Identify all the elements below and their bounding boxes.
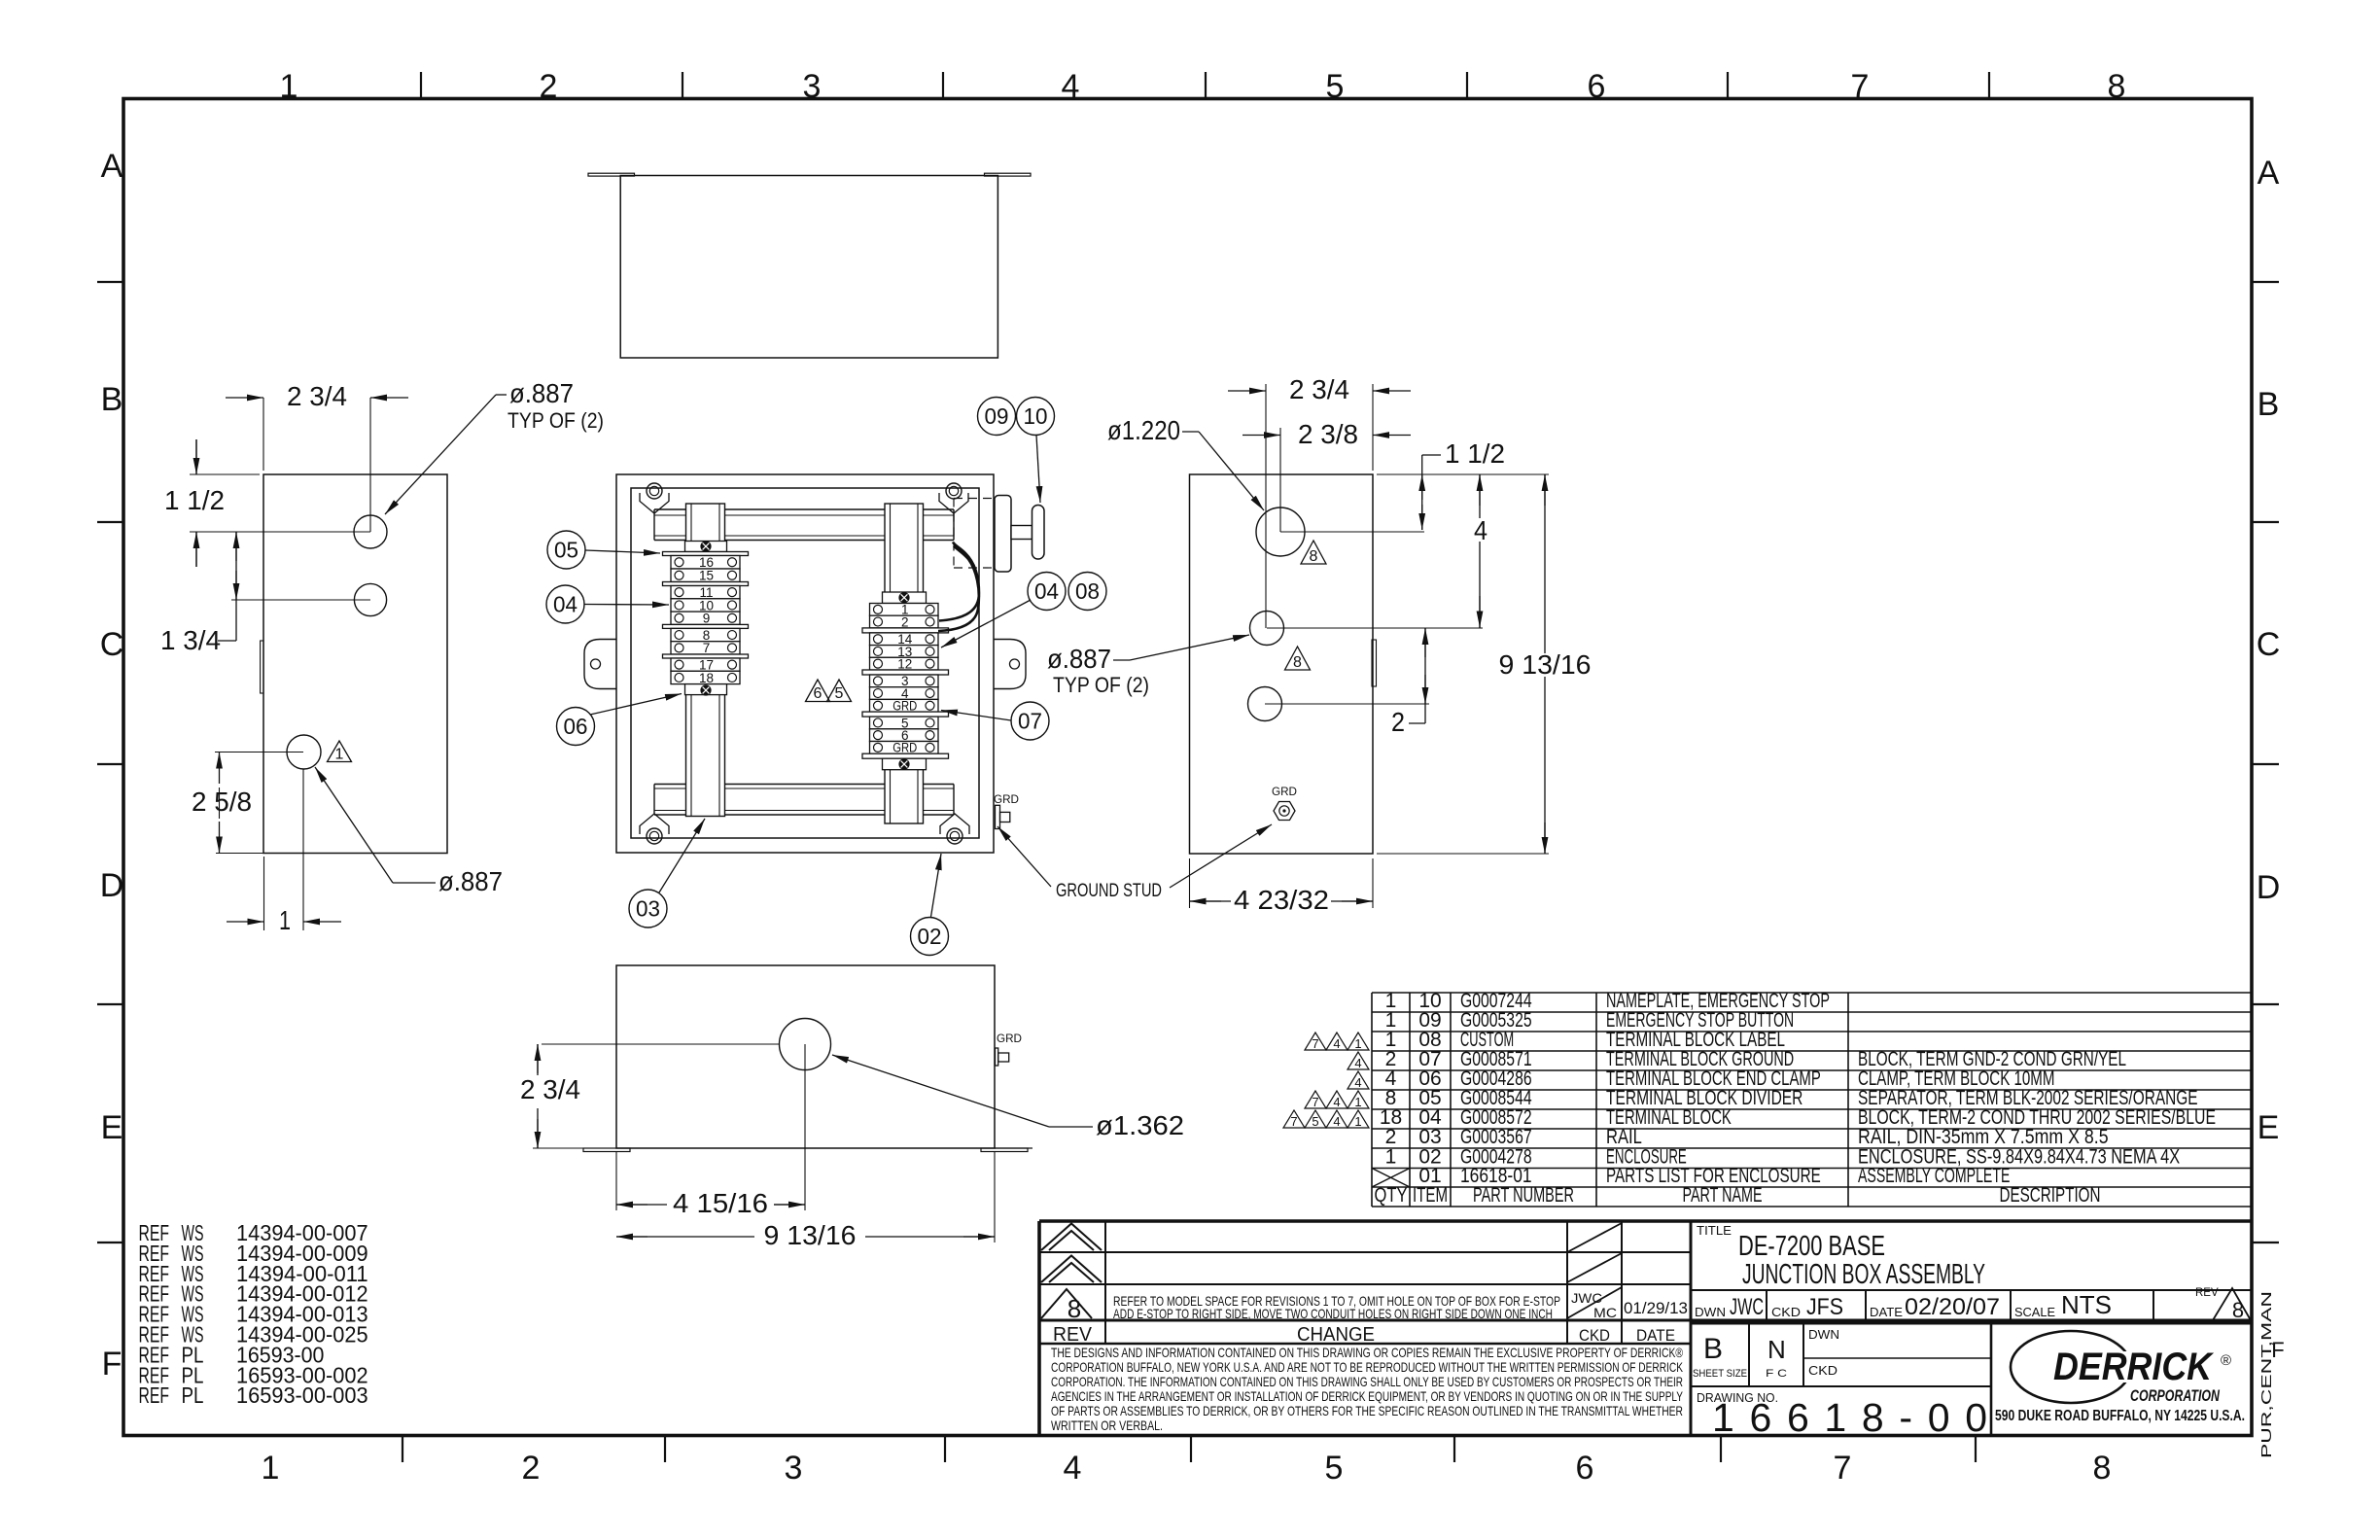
svg-text:05: 05 (554, 538, 578, 563)
balloon 09 (978, 398, 1016, 436)
rev flag triangle 8 lower (1285, 647, 1311, 670)
parts table header row (1375, 1184, 2101, 1207)
svg-text:02: 02 (918, 924, 942, 949)
rev flag triangle 8 upper (1301, 541, 1326, 564)
extension line big hole centerline (1280, 531, 1424, 533)
svg-text:5: 5 (1325, 1450, 1344, 1487)
svg-text:ASSEMBLY COMPLETE: ASSEMBLY COMPLETE (1858, 1165, 2010, 1187)
corner screw top-right (946, 483, 962, 499)
parts row item 08: CUSTOM (1385, 1029, 1785, 1051)
balloon 05 leader (585, 550, 660, 553)
svg-text:WRITTEN OR VERBAL.: WRITTEN OR VERBAL. (1051, 1417, 1163, 1433)
parts row item 04: G0008572 (1380, 1106, 2216, 1129)
zone ruler bottom ticks (402, 1436, 403, 1463)
balloon 03 (629, 890, 667, 927)
ground stud leader right (1170, 824, 1272, 888)
svg-text:SHEET SIZE: SHEET SIZE (1693, 1368, 1747, 1380)
svg-text:ADD E-STOP TO RIGHT SIDE, MOVE: ADD E-STOP TO RIGHT SIDE, MOVE TWO CONDU… (1113, 1306, 1553, 1321)
Derrick logo text (2047, 1346, 2231, 1388)
svg-text:2 3/4: 2 3/4 (520, 1074, 580, 1104)
right side view panel outline (1190, 474, 1374, 854)
svg-text:C: C (100, 626, 124, 663)
svg-text:D: D (100, 867, 124, 904)
e-stop contact block (side, item 09) (995, 496, 1011, 573)
svg-text:7: 7 (1851, 68, 1870, 105)
dimension 2 3/4 (right view) (1265, 384, 1267, 628)
right stack terminal rows 1,2 (870, 604, 939, 616)
zone ruler right ticks (2252, 281, 2279, 283)
rev flag triangles for item 08 (1305, 1032, 1369, 1051)
svg-text:9 13/16: 9 13/16 (1499, 649, 1592, 680)
field N F C (1766, 1335, 1787, 1380)
dimension 1 3/4 (left view) (231, 599, 370, 601)
svg-text:DATE: DATE (1870, 1305, 1903, 1319)
svg-text:PART NUMBER: PART NUMBER (1473, 1184, 1574, 1207)
svg-text:DWN: DWN (1695, 1305, 1726, 1319)
svg-text:590 DUKE ROAD BUFFALO, NY 1422: 590 DUKE ROAD BUFFALO, NY 14225 U.S.A. (1995, 1408, 2245, 1424)
parts list table grid (1372, 993, 2252, 1207)
balloon 06 (557, 708, 595, 746)
e-stop stem (1011, 526, 1032, 540)
left view hole middle (conduit) (354, 583, 386, 615)
rev row3 JWC MC (1571, 1290, 1617, 1320)
svg-text:09: 09 (985, 403, 1009, 429)
balloon 10 leader (1036, 436, 1040, 504)
top DIN rail horizontal (654, 508, 954, 510)
corner screw pad top-left (640, 493, 669, 513)
svg-text:7: 7 (1290, 1114, 1297, 1129)
dimension 2 5/8 (left view) (215, 752, 303, 753)
dimension 4 23/32 (below right view) (1189, 858, 1191, 908)
svg-text:3: 3 (803, 68, 822, 105)
legal paragraph (1051, 1345, 1684, 1433)
svg-text:7: 7 (703, 641, 711, 655)
svg-text:1: 1 (1354, 1114, 1361, 1129)
svg-text:1: 1 (1354, 1095, 1361, 1109)
dimension 1 1/2 (left view) (190, 473, 260, 475)
dimension 1 1/2 (right view) (1421, 455, 1423, 530)
svg-text:JFS: JFS (1806, 1294, 1843, 1320)
svg-text:2: 2 (1391, 707, 1405, 737)
svg-text:4: 4 (1333, 1036, 1340, 1051)
left stack divider plate (663, 582, 749, 586)
sheet border frame (123, 99, 2252, 1436)
svg-text:6: 6 (814, 685, 822, 702)
parts row item 03: G0003567 (1385, 1126, 2109, 1148)
ground stud on box wall (center view) (996, 805, 1000, 828)
svg-text:ø.887: ø.887 (509, 378, 574, 408)
svg-text:MC: MC (1593, 1305, 1617, 1320)
right view hole large (e-stop, dia 1.220) (1256, 507, 1305, 556)
corner screw bottom-left (647, 828, 662, 844)
right ear hole (1010, 659, 1020, 669)
svg-text:01/29/13: 01/29/13 (1624, 1299, 1688, 1317)
left ear hole (591, 659, 601, 669)
svg-text:PUR,CENT,MAN: PUR,CENT,MAN (2258, 1291, 2275, 1458)
svg-text:GRD: GRD (994, 792, 1019, 806)
bottom view left flange foot (583, 1148, 630, 1152)
svg-text:REV: REV (2195, 1287, 2219, 1299)
parts row item 09: G0005325 (1385, 1009, 1795, 1032)
rev marker chevron row2 (1041, 1256, 1102, 1283)
right stack terminal rows 3,4,GRD (870, 675, 939, 687)
field DATE 02/20/07 (1870, 1294, 2000, 1320)
balloon 04 left (546, 585, 584, 623)
right stack top end clamp (883, 592, 927, 604)
balloon 04 right (1028, 573, 1066, 611)
svg-text:GRD: GRD (997, 1032, 1022, 1045)
svg-text:03: 03 (636, 896, 660, 922)
left stack divider plate (item 05) (663, 552, 749, 556)
right stack divider plate (862, 670, 949, 675)
corner screw pad bottom-right (940, 814, 969, 834)
right mounting ear (994, 640, 1026, 689)
svg-text:CKD: CKD (1771, 1305, 1801, 1319)
sheet size row line (1691, 1322, 2252, 1325)
svg-text:1: 1 (262, 1450, 280, 1487)
balloon 02 (911, 918, 949, 956)
field sheet size B (1693, 1333, 1747, 1380)
svg-text:REF: REF (139, 1382, 170, 1408)
corner screw bottom-right (947, 828, 962, 844)
balloon 04/08 leader (941, 600, 1031, 647)
left view hole lower (conduit) (287, 735, 321, 769)
svg-text:6: 6 (1588, 68, 1606, 105)
diagonal slash cells (1567, 1223, 1622, 1318)
svg-text:B: B (101, 381, 123, 418)
rev flag triangles 6 and 5 (center view) (806, 680, 830, 702)
rev flag triangle 1 at lower hole (328, 741, 352, 762)
revision table lines (1039, 1221, 2252, 1436)
bottom view hole (dia 1.362) (780, 1019, 831, 1070)
svg-text:A: A (2257, 155, 2280, 192)
bottom view hole centerline vertical (804, 1044, 806, 1210)
right view hole lower (1248, 687, 1282, 721)
svg-text:9 13/16: 9 13/16 (764, 1220, 857, 1250)
svg-text:NTS: NTS (2061, 1290, 2112, 1319)
corner screw pad top-right (939, 493, 968, 513)
dashed conduit hole projection (e-stop) (953, 499, 955, 569)
corner screw pad bottom-left (640, 814, 669, 834)
svg-text:CHANGE: CHANGE (1297, 1324, 1375, 1346)
Derrick logo ellipse (2011, 1331, 2131, 1403)
svg-text:04: 04 (1034, 578, 1059, 604)
svg-text:2 3/4: 2 3/4 (1289, 374, 1349, 404)
top view left flange lip (588, 173, 635, 176)
svg-text:DWN: DWN (1808, 1327, 1839, 1342)
svg-text:4 15/16: 4 15/16 (673, 1188, 768, 1218)
svg-text:OF PARTS OR ASSEMBLIES TO DERR: OF PARTS OR ASSEMBLIES TO DERRICK, OR BY… (1051, 1403, 1683, 1418)
svg-text:04: 04 (553, 592, 577, 617)
extension line top edge right view (1377, 473, 1549, 475)
qty cross for item 01 (1372, 1169, 1410, 1188)
svg-text:GROUND STUD: GROUND STUD (1056, 881, 1162, 901)
svg-text:08: 08 (1075, 578, 1100, 604)
svg-text:2: 2 (522, 1450, 541, 1487)
e-stop button cap (item 10) (1032, 506, 1045, 560)
ground stud (right view) (1274, 802, 1295, 821)
right view hole middle (1250, 612, 1284, 646)
svg-text:10: 10 (1024, 403, 1048, 429)
top view enclosure outline (620, 176, 997, 359)
svg-text:THE DESIGNS AND INFORMATION CO: THE DESIGNS AND INFORMATION CONTAINED ON… (1051, 1345, 1684, 1360)
field DWN CKD small (1803, 1327, 1991, 1378)
rev marker chevron row1 (1041, 1224, 1102, 1251)
balloon 10 (1017, 398, 1055, 436)
right stack terminal rows 14,13,12 (870, 633, 939, 646)
svg-text:18: 18 (699, 671, 714, 685)
svg-text:REV: REV (1053, 1324, 1093, 1346)
svg-text:DERRICK: DERRICK (2053, 1346, 2215, 1388)
left stack top end clamp (item 06) (685, 542, 727, 552)
svg-text:CKD: CKD (1579, 1326, 1610, 1345)
svg-text:CKD: CKD (1808, 1363, 1837, 1378)
reference list REF WS / REF PL (139, 1220, 368, 1408)
center view enclosure outer wall (616, 474, 994, 853)
right stack bottom divider plate (862, 753, 949, 758)
svg-text:N: N (1767, 1335, 1786, 1364)
sheet size dividers (1691, 1323, 1991, 1436)
svg-text:ITEM: ITEM (1413, 1184, 1448, 1207)
svg-text:7: 7 (1312, 1095, 1318, 1109)
svg-text:1: 1 (1385, 1146, 1397, 1169)
svg-text:2 3/8: 2 3/8 (1298, 419, 1358, 449)
svg-text:GRD: GRD (1272, 785, 1297, 798)
bottom view hole centerline horizontal (542, 1043, 780, 1045)
svg-text:7: 7 (1834, 1450, 1852, 1487)
svg-text:1 1/2: 1 1/2 (1445, 438, 1505, 469)
svg-text:4: 4 (1333, 1095, 1340, 1109)
field DWN JWC (1695, 1294, 1764, 1320)
top view right flange lip (985, 173, 1032, 176)
dimension 1 (left view bottom) (263, 857, 265, 930)
svg-text:1: 1 (335, 747, 344, 763)
svg-text:2 3/4: 2 3/4 (287, 381, 347, 411)
right stack terminal rows 5,6,GRD (870, 717, 939, 729)
field REV 8 triangle (2195, 1287, 2251, 1322)
extension line lower hole centerline (1265, 703, 1429, 705)
field SCALE NTS (2014, 1290, 2112, 1319)
parts row item 01: 16618-01 (1418, 1165, 2010, 1187)
svg-text:8: 8 (1293, 654, 1302, 671)
rev flag triangles for item 07 (1347, 1052, 1369, 1070)
extension line bottom edge right view (1377, 853, 1549, 855)
right stack divider plate (862, 628, 949, 633)
right stack divider plate (862, 712, 949, 717)
svg-text:E: E (2257, 1109, 2280, 1146)
left stack terminal rows 16,15 (item 04) (671, 556, 740, 570)
wire from terminal 2 (938, 546, 979, 632)
extension line hole1 centerline (190, 531, 370, 533)
center view inner panel (631, 488, 979, 838)
svg-text:DATE: DATE (1636, 1326, 1675, 1345)
dimension 9 13/16 (right view) (1544, 474, 1546, 653)
svg-text:PART NAME: PART NAME (1683, 1184, 1763, 1207)
svg-text:5: 5 (1326, 68, 1345, 105)
svg-text:A: A (101, 148, 123, 185)
svg-text:F: F (102, 1346, 122, 1382)
right view edge tab (1372, 640, 1377, 686)
corner screw top-left (647, 483, 662, 499)
svg-text:D: D (2257, 869, 2281, 906)
svg-text:4: 4 (1064, 1450, 1082, 1487)
svg-text:1 1/2: 1 1/2 (164, 485, 225, 515)
svg-text:5: 5 (1312, 1114, 1318, 1129)
left view hole upper (conduit) (354, 515, 387, 548)
svg-text:4: 4 (1062, 68, 1080, 105)
svg-text:2 5/8: 2 5/8 (192, 787, 252, 817)
svg-text:F C: F C (1766, 1368, 1787, 1380)
svg-text:1: 1 (280, 68, 298, 105)
svg-text:4 23/32: 4 23/32 (1234, 885, 1329, 915)
svg-text:TYP OF (2): TYP OF (2) (507, 408, 604, 433)
balloon 02 leader (931, 854, 942, 917)
revision note text (1113, 1293, 1560, 1321)
field CKD JFS (1771, 1294, 1843, 1320)
svg-text:8: 8 (2093, 1450, 2112, 1487)
bottom view right flange foot (981, 1148, 1028, 1152)
left stack terminal rows 17,18 (671, 658, 740, 671)
balloon 03 leader (659, 819, 705, 892)
dimension 2 3/4 (bottom view) (537, 1044, 539, 1075)
svg-text:07: 07 (1018, 709, 1042, 734)
parts row item 10: G0007244 (1385, 990, 1830, 1012)
left vertical rail (item 03) (686, 504, 725, 817)
rev flag triangles for item 04 (1283, 1110, 1369, 1129)
svg-text:3: 3 (785, 1450, 803, 1487)
parts row item 05: G0008544 (1385, 1087, 2198, 1109)
balloon 04 left leader (584, 604, 669, 607)
svg-text:JUNCTION BOX ASSEMBLY: JUNCTION BOX ASSEMBLY (1742, 1259, 1985, 1290)
svg-text:16593-00-003: 16593-00-003 (236, 1382, 368, 1408)
svg-text:QTY: QTY (1375, 1184, 1408, 1207)
bottom view enclosure outline (616, 965, 995, 1148)
title data row line (1691, 1289, 2252, 1291)
title block outer frame (1039, 1221, 2252, 1436)
svg-text:4: 4 (1333, 1114, 1340, 1129)
svg-text:DESCRIPTION: DESCRIPTION (2000, 1184, 2101, 1207)
svg-text:JWC: JWC (1730, 1294, 1764, 1320)
svg-text:7: 7 (1312, 1036, 1318, 1051)
svg-text:B: B (2257, 386, 2280, 423)
svg-text:CORPORATION: CORPORATION (2130, 1386, 2221, 1405)
zone ruler left ticks (97, 281, 123, 283)
extension line middle hole centerline (1267, 627, 1483, 629)
svg-text:TITLE: TITLE (1697, 1223, 1732, 1238)
left stack bottom end clamp (685, 684, 727, 695)
bottom DIN rail horizontal (654, 784, 954, 786)
rev flag triangles for item 06 (1347, 1071, 1369, 1090)
parts row item 02: G0004278 (1385, 1146, 2181, 1169)
rev marker 8 row3 (1041, 1289, 1092, 1323)
svg-text:®: ® (2221, 1352, 2231, 1369)
svg-text:4: 4 (1354, 1056, 1361, 1070)
right stack bottom end clamp (883, 758, 927, 770)
rev flag triangles for item 05 (1305, 1091, 1369, 1109)
svg-text:8: 8 (1067, 1294, 1081, 1323)
balloon 05 (547, 531, 585, 569)
svg-text:12: 12 (897, 656, 912, 671)
dimension 2 (right view) (1424, 628, 1426, 723)
left stack terminal rows 11,10,9 (671, 586, 740, 599)
svg-text:E: E (101, 1109, 123, 1146)
balloon 07 (1011, 702, 1049, 740)
dimension 2 3/4 (left view top) (262, 398, 264, 471)
svg-text:6: 6 (1576, 1450, 1594, 1487)
parts row item 07: G0008571 (1385, 1048, 2126, 1070)
svg-text:SCALE: SCALE (2014, 1305, 2055, 1319)
left view edge tab (261, 641, 263, 693)
parts row item 06: G0004286 (1385, 1067, 2055, 1090)
left side view panel outline (263, 474, 447, 854)
svg-text:AGENCIES IN THE ARRANGEMENT OR: AGENCIES IN THE ARRANGEMENT OR INSTALLAT… (1051, 1388, 1683, 1404)
svg-text:4: 4 (1354, 1075, 1361, 1090)
zone ruler top ticks (420, 72, 422, 99)
svg-text:8: 8 (2108, 68, 2126, 105)
dimension 2 3/8 (right view) (1279, 428, 1281, 532)
svg-text:CORPORATION. THE INFORMATION C: CORPORATION. THE INFORMATION CONTAINED O… (1051, 1374, 1683, 1389)
svg-text:06: 06 (564, 714, 588, 739)
svg-text:5: 5 (835, 685, 844, 702)
svg-text:1: 1 (279, 905, 291, 935)
svg-text:GRD: GRD (892, 699, 917, 714)
left stack divider plate (663, 654, 749, 658)
svg-text:B: B (1703, 1333, 1723, 1365)
svg-text:C: C (2257, 626, 2281, 663)
svg-text:PL: PL (182, 1382, 204, 1408)
left stack terminal rows 8,7 (671, 628, 740, 641)
balloon 07 leader (941, 711, 1011, 721)
ground stud (bottom view) (996, 1048, 998, 1066)
ground stud leader left (997, 826, 1051, 887)
svg-text:9: 9 (703, 612, 711, 626)
svg-text:15: 15 (699, 569, 714, 583)
svg-text:ø1.362: ø1.362 (1096, 1110, 1184, 1140)
left mounting ear (584, 640, 616, 689)
balloon 06 leader (590, 694, 682, 716)
svg-text:GRD: GRD (892, 741, 917, 755)
right vertical rail (885, 504, 924, 823)
balloon 08 (1068, 573, 1106, 611)
svg-text:ø.887: ø.887 (438, 866, 503, 896)
dimension 9 13/16 (bottom view) (994, 1152, 996, 1242)
svg-text:CORPORATION BUFFALO, NEW YORK: CORPORATION BUFFALO, NEW YORK U.S.A. AND… (1051, 1359, 1683, 1375)
svg-text:1: 1 (1354, 1036, 1361, 1051)
svg-text:8: 8 (2232, 1298, 2244, 1322)
svg-text:DE-7200 BASE: DE-7200 BASE (1738, 1231, 1885, 1262)
svg-text:1 3/4: 1 3/4 (160, 625, 221, 655)
wire from terminal 1 (939, 542, 979, 621)
title data row dividers (1767, 1290, 2153, 1320)
dimension 4 (right view) (1479, 474, 1481, 518)
svg-text:ø.887: ø.887 (1047, 644, 1111, 674)
svg-text:2: 2 (540, 68, 558, 105)
left stack divider plate (663, 624, 749, 628)
svg-text:ø1.220: ø1.220 (1107, 415, 1180, 445)
svg-text:02/20/07: 02/20/07 (1905, 1294, 2000, 1320)
svg-text:TYP OF (2): TYP OF (2) (1053, 673, 1149, 697)
dimension 4 15/16 (bottom view) (615, 1152, 617, 1210)
svg-text:JWC: JWC (1571, 1290, 1602, 1306)
svg-text:8: 8 (1310, 548, 1318, 565)
svg-text:2: 2 (901, 614, 909, 629)
svg-text:4: 4 (1474, 515, 1487, 545)
